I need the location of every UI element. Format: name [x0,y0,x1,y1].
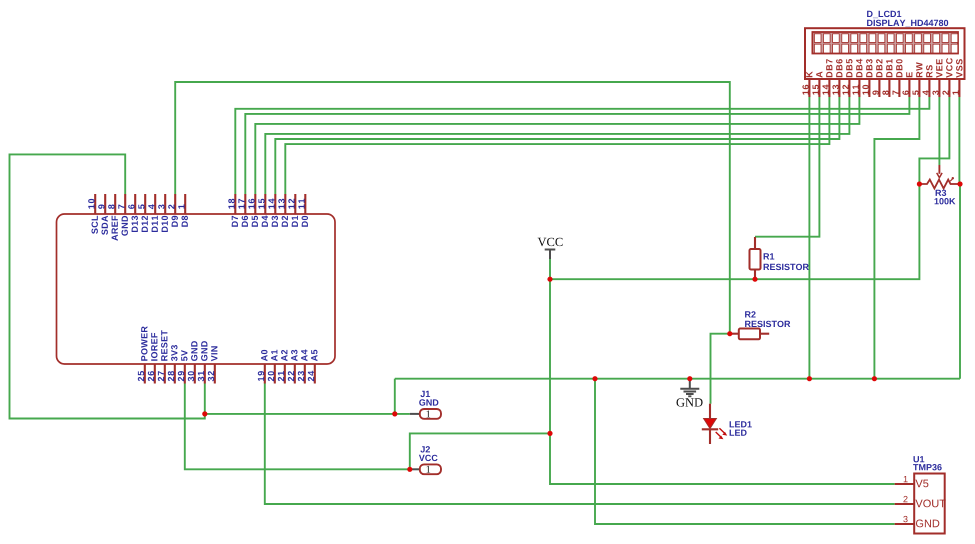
junction R3 right terminal [957,181,962,186]
junction Arduino GND pin31 node [202,411,207,416]
wire bus D7 to LCD RS [235,97,929,194]
label R1 RESISTOR [764,264,809,270]
pin 7 GND (Arduino top) [118,194,128,236]
display LCD screen area [812,32,958,54]
wire Arduino 5V pin29 to J2 [185,384,410,470]
ground symbol [680,379,699,397]
pin 1 D8 (Arduino top) [178,194,188,227]
pin 20 A1 (Arduino bottom) [268,350,278,384]
pin 29 5V (Arduino bottom) [178,350,188,383]
resistor R2 [730,329,769,340]
wire bus D3 to LCD DB6 [275,97,839,194]
wire R3 left down to VCC rail [550,184,919,279]
connector J2 pin [410,468,420,470]
pin 5 RW (LCD) [913,62,923,97]
wire ground rail [395,378,960,380]
pin 8 AREF (Arduino top) [108,194,118,241]
pin 10 SCL (Arduino top) [88,194,98,234]
wire GND net: Arduino pin7 GND left detour [10,154,205,418]
pin 12 DB5 (LCD) [842,59,852,97]
wire J1 up to ground rail [394,379,396,414]
junction ground rail to LCD K [807,376,812,381]
junction J1 node [392,411,397,416]
connector J1 pin [410,413,420,415]
junction J2 node [407,467,412,472]
resistor R3 right stub [950,183,960,185]
pin 4 RS (LCD) [923,65,933,97]
pin 22 A3 (Arduino bottom) [288,350,298,384]
label LED1 [730,421,752,427]
pin 11 D0 (Arduino top) [298,194,308,227]
pin 6 E (LCD) [902,72,912,97]
pin 3 D10 (Arduino top) [158,194,168,232]
display D_LCD1 label [867,11,901,18]
pin 9 DB2 (LCD) [872,59,882,97]
wire LCD VEE pin3 down to R3 wiper [938,97,940,165]
pin 28 3V3 (Arduino bottom) [168,345,178,384]
pin 6 D13 (Arduino top) [128,194,138,232]
pin 14 D3 (Arduino top) [268,194,278,227]
wire D9 net from Arduino pin2 to R2 [175,82,730,334]
pin 1 VSS (LCD) [953,59,963,97]
pin 23 A4 (Arduino bottom) [298,350,308,384]
wire bus D6 to LCD E [245,97,909,194]
junction VCC / J2 / TMP36 node [547,431,552,436]
junction R2 / D9 / LED node [727,331,732,336]
wire ground rail to TMP36 GND [595,379,895,524]
pin 17 D6 (Arduino top) [238,194,248,227]
connector J2 body [420,464,441,474]
label R2 RESISTOR [745,321,790,327]
wire bus D4 to LCD DB5 [265,97,849,194]
label VCC net [538,238,563,247]
pin 16 K (LCD) [802,71,812,97]
junction ground rail to GND symbol [687,376,692,381]
junction ground rail to TMP36 [592,376,597,381]
junction R3 left terminal [917,181,922,186]
label GND net [677,398,703,406]
display LCD character cells [814,34,957,53]
pin 13 DB6 (LCD) [832,59,842,97]
pin 18 D7 (Arduino top) [228,194,238,227]
junction VCC symbol to rail [547,277,552,282]
wire VCC rail down to J2 junction [549,279,551,433]
connector J1 pin number 1 [427,411,431,418]
pin 7 DB0 (LCD) [893,59,903,97]
wire LCD pin1 VSS down to R3 right [958,97,960,184]
wire LCD A backlight to R1 top [755,97,819,237]
pin 15 A (LCD) [813,72,823,98]
resistor R3 wiper arrow [937,165,942,178]
pin 25 POWER (Arduino bottom) [138,326,148,383]
pin 9 SDA (Arduino top) [98,194,108,235]
label J1 GND [419,399,438,405]
pin 14 DB7 (LCD) [823,59,833,97]
pin 30 GND (Arduino bottom) [188,341,198,383]
pin 3 GND (TMP36) [895,516,940,527]
resistor R1 [750,237,761,279]
wire bus D2 to LCD DB7 [285,97,829,194]
junction R1 bottom on VCC rail [752,277,757,282]
pin 15 D4 (Arduino top) [258,194,268,227]
wire VCC junction to J2 [410,433,550,469]
wire R2 junction to LED anode [711,334,730,404]
resistor R3 end mark [950,177,954,181]
label J1 [420,391,430,397]
power VCC symbol [545,250,556,260]
pin 27 RESET (Arduino bottom) [158,330,168,383]
pin 19 A0 (Arduino bottom) [258,350,268,384]
wire GND from Arduino pin31 down to junction [204,384,206,414]
LED LED1 emission arrows [716,428,728,439]
label R2 [745,311,756,317]
pin 1 V5 (TMP36) [895,476,929,487]
resistor R3 trimmer zigzag [919,180,950,189]
pin 24 A5 (Arduino bottom) [308,350,318,384]
wire LCD RW to ground rail [874,97,919,379]
pin 11 DB4 (LCD) [853,59,863,97]
sensor U1 body [914,474,945,534]
pin 2 VOUT (TMP36) [895,496,946,507]
wire LCD K backlight to ground rail [808,97,810,379]
wire VCC symbol to rail [549,258,551,279]
label J2 [420,446,430,452]
connector J1 body [420,409,441,419]
label R1 [764,253,775,259]
label U1 [914,456,925,462]
pin 21 A2 (Arduino bottom) [278,350,288,384]
wire VCC junction to TMP36 V5 [550,433,895,484]
LED LED1 [702,404,718,444]
wire bus D5 to LCD DB4 [255,97,859,194]
pin 8 DB1 (LCD) [882,59,892,97]
display D_LCD1 body [805,28,965,79]
wire LCD VCC pin2 to R3 left [919,97,949,184]
label J2 VCC [419,455,438,461]
pin 2 D9 (Arduino top) [168,194,178,227]
label R3 100K [935,198,956,204]
wire ground rail right end up to R3 [959,184,961,379]
label LED value [730,430,747,436]
connector J2 pin number 1 [427,466,431,473]
pin 5 D12 (Arduino top) [138,194,148,232]
pin 16 D5 (Arduino top) [248,194,258,227]
label R3 [936,190,947,196]
pin 12 D1 (Arduino top) [288,194,298,227]
pin 26 IOREF (Arduino bottom) [148,333,158,384]
label U1 TMP36 [913,464,942,470]
pin 3 VEE (LCD) [932,59,942,97]
wire GND junction to J1 [205,413,410,415]
pin 4 D11 (Arduino top) [148,194,158,232]
pin 31 GND (Arduino bottom) [198,341,208,383]
pin 2 VCC (LCD) [942,58,952,97]
IC ARDUINO main body [57,214,336,364]
wire Arduino A0 to TMP36 VOUT [265,384,895,505]
pin 32 VIN (Arduino bottom) [208,346,218,383]
pin 10 DB3 (LCD) [862,59,872,97]
display DISPLAY_HD44780 label [867,20,948,27]
pin 13 D2 (Arduino top) [278,194,288,227]
junction ground rail to LCD RW [872,376,877,381]
